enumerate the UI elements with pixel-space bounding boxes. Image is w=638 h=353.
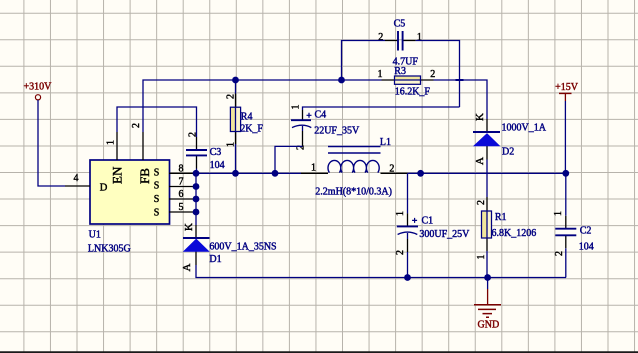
svg-text:6.8K_1206: 6.8K_1206 [492,228,537,239]
crossing tick C5 net over R3 net [456,79,464,81]
svg-text:A: A [181,264,193,272]
svg-text:K: K [183,223,195,231]
svg-text:7: 7 [179,177,184,188]
wire S pins vertical [195,173,197,225]
junction pin6 [193,196,200,203]
svg-text:LNK305G: LNK305G [88,244,131,255]
diode D1 [181,223,277,272]
wire D1 anode to bottom rail [196,265,566,278]
svg-text:2: 2 [226,94,237,99]
svg-text:S: S [154,194,160,205]
svg-text:K: K [474,113,486,121]
svg-text:C2: C2 [580,226,592,237]
junction GND node [484,274,491,281]
wire C4 top net [303,107,460,110]
svg-text:1: 1 [476,255,487,260]
wire L1 to +15V rail [408,172,566,174]
power port +15V [555,82,579,101]
junction C4 bottom [272,170,279,177]
power port +310V [24,82,53,100]
svg-text:8: 8 [179,163,184,174]
svg-text:R3: R3 [394,66,406,77]
svg-text:1: 1 [553,211,564,216]
svg-text:D: D [100,183,108,194]
junction R4 bottom [232,170,239,177]
wire R3 left to junction [342,79,382,81]
svg-text:22UF_35V: 22UF_35V [314,126,360,137]
pin 2 (FB) [131,123,143,160]
svg-text:600V_1A_35NS: 600V_1A_35NS [209,242,276,253]
power port GND [474,278,501,331]
svg-text:EN: EN [110,166,125,184]
inductor L1 [301,137,408,198]
bottom window edge [0,351,638,353]
svg-text:2K_F: 2K_F [240,123,263,134]
svg-text:C1: C1 [422,216,434,227]
svg-text:2: 2 [389,164,394,175]
junction mid rail [417,170,424,177]
svg-text:GND: GND [478,319,500,330]
svg-text:1: 1 [311,163,316,174]
svg-text:16.2K_F: 16.2K_F [395,87,431,98]
svg-text:1: 1 [106,140,117,145]
svg-text:C3: C3 [210,147,222,158]
wire +15V down to rail [564,101,566,173]
wire main switch node [196,172,301,174]
capacitor C1 [395,173,470,255]
svg-text:2: 2 [395,250,406,255]
pin 8 (S) [169,163,196,174]
wire pin1 to C3 top [117,107,197,137]
svg-text:2: 2 [430,69,435,80]
junction pin5 [193,209,200,216]
svg-text:300UF_25V: 300UF_25V [419,229,470,240]
pin 4 (D) [65,173,90,186]
pin 5 (S) [169,202,196,213]
capacitor C3 [186,132,225,173]
wire C1 bottom [407,252,409,278]
svg-text:FB: FB [137,168,152,184]
svg-text:C4: C4 [315,109,327,120]
capacitor C4 [291,105,360,151]
svg-text:5: 5 [179,202,184,213]
svg-text:2: 2 [554,251,565,256]
wire C4 bottom to main net [275,146,303,173]
wire +310V to pin4 [38,100,65,186]
wire C5 right down to C4 net [416,41,460,108]
pin 1 (EN) [106,132,118,160]
wire pin2 to R3/R4 net [143,80,342,132]
svg-text:C5: C5 [394,19,406,30]
junction C1 bottom [404,274,411,281]
svg-text:+15V: +15V [555,82,579,93]
svg-text:R1: R1 [495,212,507,223]
wire D2 anode through rail to R1 [486,160,488,198]
svg-text:U1: U1 [89,230,101,241]
junction R4 top [232,77,239,84]
svg-text:2.2mH(8*10/0.3A): 2.2mH(8*10/0.3A) [315,187,392,198]
pin 7 (S) [169,177,196,188]
capacitor C5 [378,19,422,68]
svg-text:+310V: +310V [24,82,53,93]
wire C2 bottom to rail [565,248,567,277]
resistor R3 [378,66,436,98]
pin 6 (S) [169,189,196,200]
svg-text:R4: R4 [241,111,253,122]
svg-text:1: 1 [378,69,383,80]
wire C5 left to R3 net [342,41,386,81]
resistor R1 [476,197,536,260]
svg-text:2: 2 [188,132,199,137]
svg-text:1000V_1A: 1000V_1A [502,123,547,134]
svg-text:D1: D1 [209,254,221,265]
junction +15V/C2 [562,170,569,177]
svg-text:S: S [154,208,160,219]
svg-text:S: S [154,167,160,178]
svg-text:S: S [154,181,160,192]
svg-text:D2: D2 [502,147,514,158]
diode D2 [473,113,547,165]
junction R3/C5 left [338,77,345,84]
svg-text:6: 6 [179,189,184,200]
svg-text:104: 104 [210,160,225,171]
wire R1 bottom to rail [486,251,488,278]
svg-text:1: 1 [291,105,302,110]
capacitor C2 [553,173,594,256]
junction pin7 [193,183,200,190]
svg-text:1: 1 [395,211,406,216]
IC U1 LNK305G [88,160,170,255]
svg-text:2: 2 [131,123,142,128]
resistor R4 [226,80,264,173]
svg-text:L1: L1 [380,137,391,148]
svg-text:A: A [474,157,486,165]
svg-text:2: 2 [476,200,487,205]
svg-text:1: 1 [226,142,237,147]
svg-text:4: 4 [74,173,79,184]
svg-text:104: 104 [579,241,594,252]
junction pin8/C3 [193,170,200,177]
wire R3 right to D2 cathode [434,80,488,119]
